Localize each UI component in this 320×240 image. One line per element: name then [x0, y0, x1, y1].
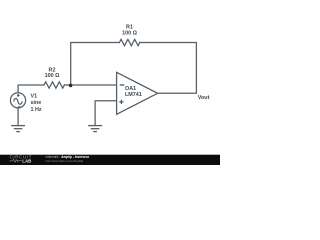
- svg-text:LM741: LM741: [125, 92, 142, 98]
- node junction dot: [69, 84, 73, 88]
- wire R2 right to op-amp minus input: [64, 84, 116, 86]
- op-amp minus sign: [120, 84, 125, 86]
- CircuitLab logo waveform: [10, 159, 22, 162]
- wire V1 bottom to ground: [17, 108, 19, 125]
- svg-text:http://circuitlab.com/c/5sq6jk: http://circuitlab.com/c/5sq6jk: [45, 159, 83, 163]
- op-amp OA1 triangle: [117, 72, 158, 114]
- svg-text:V1: V1: [31, 94, 38, 100]
- resistor R2: [44, 82, 64, 88]
- svg-text:1 Hz: 1 Hz: [31, 107, 42, 113]
- footer bar: [0, 155, 220, 165]
- resistor R1: [119, 39, 139, 45]
- ground (op-amp plus input): [88, 126, 102, 132]
- wire plus input to ground: [95, 101, 117, 126]
- voltage source V1: [10, 93, 25, 108]
- svg-text:100 Ω: 100 Ω: [45, 73, 60, 79]
- wire R1 right, feedback right vertical, output wire: [140, 43, 197, 94]
- svg-text:sine: sine: [31, 100, 42, 106]
- wire V1 top to R2 left: [18, 85, 44, 93]
- svg-text:100 Ω: 100 Ω: [122, 30, 137, 36]
- svg-text:Vout: Vout: [198, 95, 210, 101]
- ground (V1): [11, 126, 25, 132]
- svg-text:LAB: LAB: [22, 158, 31, 163]
- op-amp plus sign: [119, 100, 123, 104]
- wire feedback left vertical: [71, 43, 120, 86]
